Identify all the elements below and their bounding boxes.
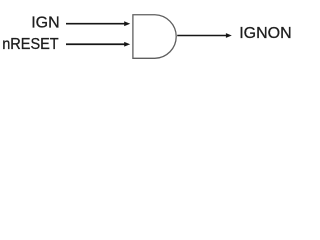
svg-text:IGNON: IGNON: [239, 25, 291, 42]
arrowhead nRESET input: [124, 42, 130, 47]
wire IGN input to AND gate: [66, 23, 125, 25]
svg-text:IGN: IGN: [31, 14, 59, 31]
wire AND gate output to IGNON: [177, 35, 226, 37]
AND gate U1: [133, 15, 176, 59]
wire nRESET input to AND gate: [66, 43, 125, 45]
arrowhead IGN input: [124, 21, 130, 26]
arrowhead output: [226, 33, 232, 38]
svg-text:nRESET: nRESET: [2, 36, 59, 53]
